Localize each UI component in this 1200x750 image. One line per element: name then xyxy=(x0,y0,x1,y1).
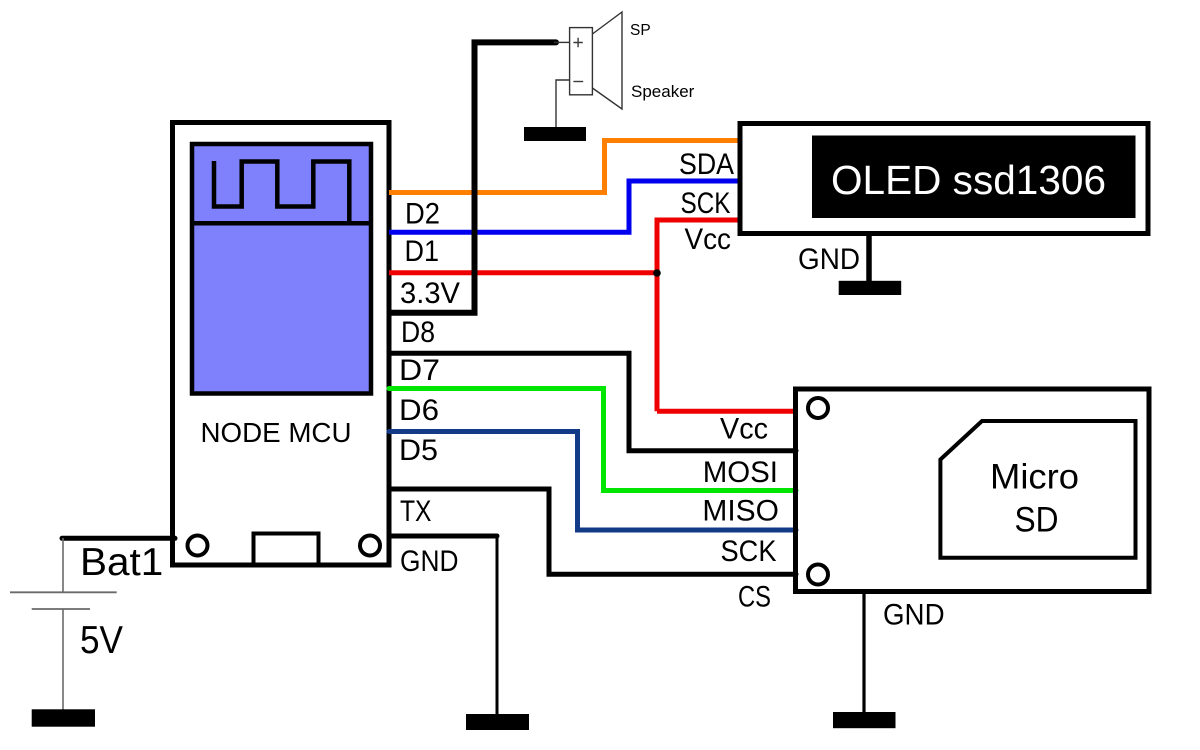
svg-text:Speaker: Speaker xyxy=(631,82,695,101)
svg-text:Vcc: Vcc xyxy=(685,223,732,256)
svg-text:SD: SD xyxy=(1015,501,1059,540)
wire D5 to SCK (dark blue) xyxy=(389,432,796,531)
wire red vertical branch to OLED Vcc and MicroSD Vcc xyxy=(657,220,742,411)
svg-text:GND: GND xyxy=(400,545,459,578)
wire 3.3V to junction (red) xyxy=(389,270,657,275)
ground symbol below NodeMCU GND xyxy=(466,714,529,730)
svg-text:SDA: SDA xyxy=(679,148,734,181)
battery Bat1 lead top xyxy=(62,538,64,592)
wire red branch into MicroSD Vcc xyxy=(657,409,796,414)
ground symbol below MicroSD xyxy=(833,712,896,728)
svg-text:MOSI: MOSI xyxy=(703,456,778,489)
svg-text:Bat1: Bat1 xyxy=(80,541,163,584)
wire GND pin of NodeMCU (black) xyxy=(389,534,497,539)
wire Bat1 plus to NodeMCU (black) xyxy=(62,536,175,541)
svg-text:SCK: SCK xyxy=(721,535,777,568)
svg-text:SP: SP xyxy=(630,22,651,39)
svg-text:TX: TX xyxy=(400,495,432,528)
svg-text:SCK: SCK xyxy=(681,187,731,220)
ground symbol below battery xyxy=(32,709,95,726)
speaker plus lead (thin) xyxy=(554,41,570,43)
U1 mount hole left xyxy=(188,536,208,556)
wire GND drop (thin) xyxy=(496,536,499,715)
U1 mount hole right xyxy=(360,536,380,556)
svg-text:GND: GND xyxy=(798,243,860,276)
wire D2 to SDA (orange) xyxy=(389,141,742,193)
speaker SP body rect xyxy=(570,28,593,95)
ground symbol below OLED xyxy=(839,281,902,295)
U1 chip divider line xyxy=(190,221,373,226)
svg-text:D1: D1 xyxy=(405,235,440,268)
battery Bat1 short plate xyxy=(32,608,90,610)
speaker minus lead to ground (thin) xyxy=(556,80,570,128)
MicroSD GND stub wire xyxy=(862,589,865,714)
wire TX to CS (black) xyxy=(389,489,796,574)
svg-text:Vcc: Vcc xyxy=(720,413,768,446)
speaker minus terminal mark xyxy=(573,81,583,83)
svg-text:5V: 5V xyxy=(80,619,123,662)
svg-text:D5: D5 xyxy=(399,434,438,467)
MicroSD mount hole top xyxy=(808,398,828,418)
speaker plus terminal mark xyxy=(573,38,582,47)
svg-text:OLED ssd1306: OLED ssd1306 xyxy=(831,157,1106,203)
speaker SP cone xyxy=(592,12,622,109)
svg-text:D6: D6 xyxy=(399,394,439,427)
OLED display black face xyxy=(812,136,1136,219)
battery Bat1 lead bottom xyxy=(62,609,64,711)
U1 chip inner purple rect xyxy=(192,144,371,394)
U1 USB connector xyxy=(254,534,319,566)
MicroSD mount hole bottom xyxy=(808,565,828,585)
module OLED outer box xyxy=(740,124,1148,234)
svg-text:CS: CS xyxy=(738,581,771,614)
battery Bat1 long plate xyxy=(10,591,117,593)
svg-text:MISO: MISO xyxy=(702,495,779,528)
wire D7 to MOSI (black) xyxy=(389,353,796,450)
svg-text:D2: D2 xyxy=(405,198,440,231)
ground symbol below speaker xyxy=(524,127,586,141)
wire D8 to speaker plus (black) xyxy=(390,42,556,312)
OLED GND stub wire xyxy=(866,234,872,283)
SD card outline xyxy=(940,421,1135,558)
U1 clock waveform glyph xyxy=(214,161,349,223)
svg-text:3.3V: 3.3V xyxy=(400,277,460,310)
svg-text:Micro: Micro xyxy=(990,458,1079,497)
junction dot on red net xyxy=(653,269,661,277)
svg-text:D8: D8 xyxy=(401,316,435,349)
wire D6 to MISO (green) xyxy=(389,389,796,491)
svg-text:NODE MCU: NODE MCU xyxy=(201,417,352,448)
module MicroSD outer box xyxy=(796,389,1150,592)
module U1 NODE MCU outer box xyxy=(173,123,390,566)
svg-text:GND: GND xyxy=(883,599,945,632)
svg-text:D7: D7 xyxy=(399,354,440,387)
wire D1 to SCK (blue) xyxy=(389,181,742,232)
